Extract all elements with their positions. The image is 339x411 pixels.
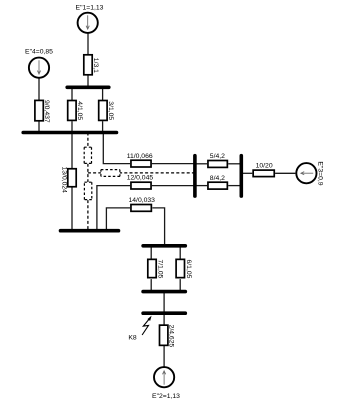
svg-text:13/0,024: 13/0,024 [61,167,68,194]
svg-text:2/4,625: 2/4,625 [167,325,174,348]
svg-text:E"4=0,85: E"4=0,85 [25,49,53,56]
svg-text:11/0,066: 11/0,066 [127,153,153,160]
svg-text:1/3,1: 1/3,1 [92,58,99,73]
svg-text:E"1=1,13: E"1=1,13 [76,4,104,11]
svg-text:3/1,05: 3/1,05 [107,101,114,120]
svg-text:10/20: 10/20 [256,163,273,170]
svg-text:7/1,05: 7/1,05 [157,260,164,279]
svg-text:4/1,05: 4/1,05 [76,101,83,120]
svg-text:12/0,045: 12/0,045 [127,175,154,182]
svg-text:14/0,033: 14/0,033 [129,197,156,204]
svg-text:E"2=1,13: E"2=1,13 [152,393,180,400]
svg-text:6/1,05: 6/1,05 [185,260,192,279]
svg-text:K8: K8 [128,335,137,342]
svg-text:8/4,2: 8/4,2 [210,175,225,182]
svg-text:E"3=0,9: E"3=0,9 [317,161,324,185]
svg-text:9/0,437: 9/0,437 [43,100,50,123]
svg-text:5/4,2: 5/4,2 [210,153,225,160]
